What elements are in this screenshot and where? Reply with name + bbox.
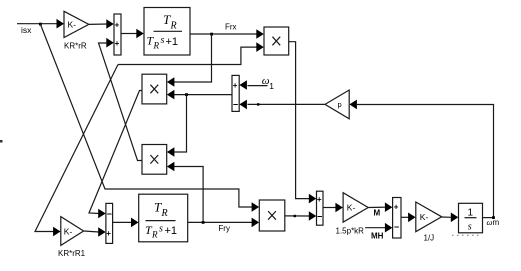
arrow into transfer block TF2 <box>131 218 139 228</box>
arrow into multiplier X2 upper <box>167 77 175 87</box>
svg-text:isx: isx <box>21 25 32 35</box>
sum S1 <box>114 14 121 55</box>
arrow into gain K1 <box>57 19 65 29</box>
svg-text:−: − <box>107 209 112 219</box>
svg-text:K-: K- <box>420 212 429 222</box>
wire gain K2 to sum S2 plus <box>84 231 99 232</box>
svg-text:+: + <box>394 203 399 212</box>
arrow into multiplier X2 lower <box>167 90 175 100</box>
wire sum S1 to transfer block TF1 <box>121 33 137 35</box>
svg-text:−: − <box>317 212 322 222</box>
wire MH load torque input <box>365 227 385 229</box>
node label wm <box>487 217 500 227</box>
arrow into gain p <box>349 100 357 110</box>
svg-text:+: + <box>233 81 238 90</box>
transfer function TF2 TR/(TRs+1) <box>139 194 188 242</box>
wire integrator output wm <box>482 217 494 219</box>
arrow into gain K3 <box>335 203 343 213</box>
svg-text:+: + <box>317 195 322 204</box>
svg-text:+: + <box>115 39 120 48</box>
svg-text:KR*rR1: KR*rR1 <box>58 249 86 258</box>
gain K1 KR*rR <box>64 11 89 37</box>
arrow into sum S2 plus <box>98 227 106 237</box>
arrow into sum S4 plus <box>239 80 247 90</box>
node isy faint input mark <box>0 140 3 143</box>
node isx input label <box>21 25 32 35</box>
sum S2 <box>106 203 113 243</box>
wire multiplier X4 output to sum S3 minus <box>285 215 310 217</box>
multiplier X2 <box>142 74 167 104</box>
svg-text:Fry: Fry <box>218 224 230 233</box>
svg-text:R: R <box>151 230 158 240</box>
arrow into multiplier X1 upper <box>256 29 264 39</box>
svg-text:1: 1 <box>468 208 474 219</box>
svg-text:1: 1 <box>269 81 274 91</box>
wire sum S3 to gain K3 <box>323 207 336 209</box>
wire sum S4 output to multiplier X2 lower input <box>173 94 232 96</box>
arrow into sum S1 plus bottom <box>106 38 114 48</box>
svg-text:Frx: Frx <box>225 23 237 32</box>
arrow into sum S3 minus <box>309 211 317 221</box>
arrow into multiplier X3 upper <box>167 147 175 157</box>
arrow into gain K2 <box>53 227 61 237</box>
gain K3 1.5p*kR <box>343 193 368 223</box>
svg-text:K-: K- <box>347 203 356 213</box>
wire sum S2 to transfer block TF2 <box>113 221 132 223</box>
wire speed feedback from output to gain p <box>357 105 494 218</box>
node dot on X4 output wire <box>294 215 296 217</box>
svg-text:R: R <box>153 41 160 51</box>
arrow into transfer block TF1 <box>136 29 144 39</box>
wire gain K1 to sum S1 <box>89 23 108 25</box>
node dotted marks under integrator <box>452 234 482 236</box>
node label KR*rR <box>64 42 87 51</box>
wire sum S5 to gain K4 <box>401 216 409 218</box>
svg-text:K-: K- <box>64 227 73 237</box>
wire omega branch down to multiplier X3 upper input <box>173 95 187 152</box>
arrow into sum S3 plus <box>309 194 317 204</box>
wire isx input <box>17 23 58 25</box>
svg-text:R: R <box>170 21 177 32</box>
wire Fry output TF2 to multiplier X4 lower input <box>188 221 253 223</box>
node junction Frx branch <box>210 33 213 36</box>
multiplier X3 <box>142 145 167 175</box>
sum S3 <box>317 191 324 225</box>
wire gain K4 to integrator <box>442 216 452 218</box>
svg-text:s: s <box>161 35 165 46</box>
integrator block 1/s <box>459 203 483 233</box>
wire gain p output to sum S4 minus <box>248 103 326 105</box>
node label KR*rR1 <box>58 249 86 258</box>
transfer function TF1 TR/(TRs+1) <box>144 8 190 56</box>
node junction on isx wire <box>39 23 42 26</box>
wire multiplier X3 output to sum S1 lower input <box>99 43 143 161</box>
arrow into gain K4 <box>408 213 416 223</box>
multiplier X1 <box>264 27 289 55</box>
node label 1.5p*kR <box>336 227 365 236</box>
svg-text:−: − <box>394 222 399 232</box>
wire torque M to sum S5 <box>368 206 385 208</box>
node dot on p output wire <box>257 103 259 105</box>
wire diagonal isx to bottom multiplier X4 <box>40 24 253 207</box>
arrow into multiplier X3 lower <box>167 162 175 172</box>
svg-text:1.5p*kR: 1.5p*kR <box>336 227 365 236</box>
wire Fry branch up to multiplier X3 lower input <box>173 167 203 223</box>
gain K5 p feedback <box>325 90 349 119</box>
node label 1/J <box>424 234 435 243</box>
arrow into multiplier X1 lower <box>256 42 264 52</box>
gain K2 KR*rR1 <box>61 217 84 246</box>
svg-text:s: s <box>468 222 472 233</box>
svg-text:p: p <box>338 100 342 109</box>
wire Frx branch down to multiplier X2 <box>173 34 212 82</box>
wire diagonal isy down to gain K2 <box>35 65 118 232</box>
svg-text:+1: +1 <box>165 225 178 237</box>
svg-text:R: R <box>161 208 168 219</box>
arrow into multiplier X4 upper <box>252 202 260 212</box>
sum S4 <box>232 75 239 111</box>
arrow into sum S5 minus <box>385 223 393 233</box>
arrow into sum S1 plus top <box>106 19 114 29</box>
svg-text:M: M <box>374 209 381 218</box>
node label Fry <box>218 224 230 233</box>
wire multiplier X2 output diagonal to sum S2 minus <box>89 91 142 214</box>
node omega1 label <box>262 75 274 91</box>
svg-text:MH: MH <box>371 232 384 241</box>
wire omega1 input to sum S4 <box>248 85 268 87</box>
arrow into sum S4 minus <box>239 100 247 110</box>
arrow into sum S2 minus <box>98 209 106 219</box>
arrow into integrator <box>451 213 459 223</box>
node label Frx <box>225 23 237 32</box>
svg-text:s: s <box>159 224 163 235</box>
node label M <box>374 209 381 218</box>
gain K4 1/J <box>416 202 442 232</box>
wire multiplier X1 output down to sum S3 plus <box>289 42 310 199</box>
svg-text:−: − <box>233 100 238 110</box>
node junction output feedback <box>492 216 495 219</box>
node label MH <box>371 232 384 241</box>
svg-text:+: + <box>106 229 111 238</box>
arrow into multiplier X4 lower <box>252 218 260 228</box>
svg-text:m: m <box>493 218 500 227</box>
svg-text:+1: +1 <box>166 36 179 48</box>
multiplier X4 <box>259 200 285 231</box>
wire Frx output TF1 to multiplier X1 <box>190 33 257 35</box>
sum S5 <box>393 198 401 239</box>
svg-text:KR*rR: KR*rR <box>64 42 87 51</box>
node junction Fry branch <box>202 221 205 224</box>
wire isy line to multiplier X1 lower input <box>118 47 257 64</box>
svg-text:K-: K- <box>68 20 77 30</box>
arrow into sum S5 plus <box>385 202 393 212</box>
node junction omega line <box>185 93 188 96</box>
svg-text:1/J: 1/J <box>424 234 435 243</box>
svg-text:+: + <box>115 21 120 30</box>
